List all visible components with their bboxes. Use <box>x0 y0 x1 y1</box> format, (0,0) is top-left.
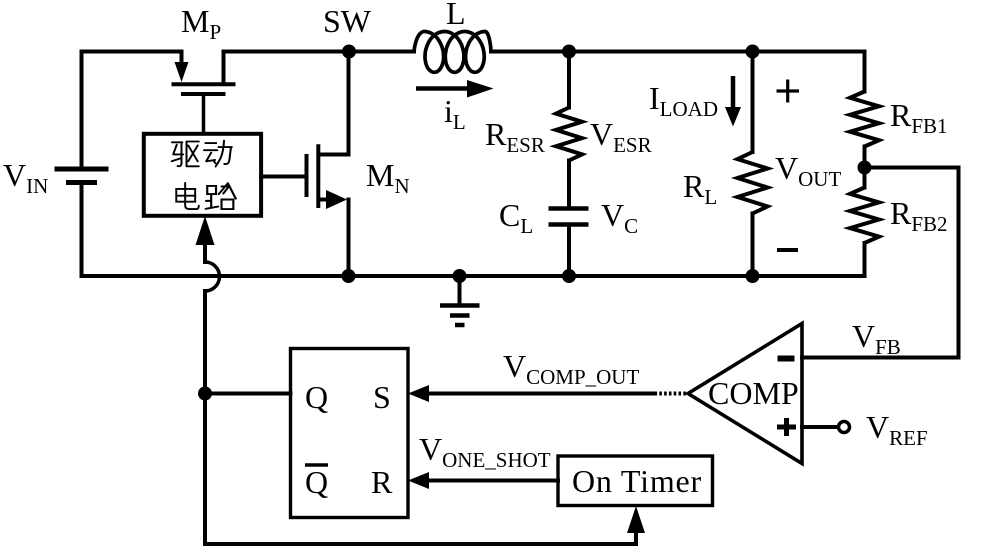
transistor MP (PMOS) <box>172 52 236 95</box>
node A feedback junction <box>198 387 212 401</box>
wire hop over bottom rail <box>205 262 220 291</box>
hanzi 驱 <box>172 141 199 166</box>
wire RESR to CL <box>567 161 571 207</box>
SR latch box <box>291 349 409 518</box>
node VFB <box>858 161 872 175</box>
wire MP gate to driver box <box>202 95 206 134</box>
minus sign VOUT <box>777 248 798 252</box>
svg-text:COMP: COMP <box>708 375 799 411</box>
svg-text:L: L <box>446 0 466 31</box>
wire COMP plus input to VREF terminal <box>802 425 838 429</box>
inductor L <box>414 32 491 73</box>
overbar of Qbar <box>305 463 328 467</box>
transistor MN (NMOS) <box>307 144 349 208</box>
wire COMP output dotted segment <box>655 392 687 396</box>
comparator COMP <box>688 324 802 464</box>
wire hop to driver arrow <box>203 243 207 262</box>
wire driver box to MN gate <box>261 175 306 179</box>
wire On Timer R output to latch R input <box>424 479 558 483</box>
plus sign COMP input <box>777 418 796 436</box>
svg-text:S: S <box>373 379 391 415</box>
wire top rail inductor to RFB1 <box>491 52 865 92</box>
svg-text:Q: Q <box>305 464 328 500</box>
node RL top <box>746 45 760 59</box>
resistor RESR <box>556 108 582 161</box>
wire COMP output solid segment <box>424 392 655 396</box>
wire node A down and along bottom to On Timer <box>205 394 636 545</box>
arrow into driver box bottom <box>196 216 215 245</box>
On Timer box <box>558 456 713 506</box>
plus sign VOUT <box>777 80 800 103</box>
resistor RFB1 <box>850 92 879 147</box>
node SW <box>342 45 356 59</box>
wire top-left rail <box>82 52 182 167</box>
capacitor CL <box>549 209 589 225</box>
wire RFB1 to RFB2 through VFB node <box>863 147 867 188</box>
wire CL bottom lead <box>567 227 571 277</box>
svg-text:R: R <box>371 464 393 500</box>
arrowhead into On Timer bottom <box>627 506 645 533</box>
hanzi 动 <box>204 141 232 167</box>
ground <box>440 276 480 325</box>
wire battery bottom lead <box>80 185 84 277</box>
svg-text:SW: SW <box>323 3 372 39</box>
arrowhead into R input <box>408 472 429 489</box>
arrow iL <box>416 80 494 98</box>
minus sign COMP input <box>778 356 795 362</box>
resistor RFB2 <box>850 188 879 244</box>
wire RESR top lead <box>567 52 571 108</box>
wire RL top lead <box>751 52 755 153</box>
hanzi 路 <box>206 183 236 209</box>
terminal VREF circle <box>839 422 850 433</box>
wire RL bottom lead <box>751 214 755 277</box>
arrowhead into S input <box>408 385 429 402</box>
wire bottom rail <box>82 243 865 276</box>
hanzi 电 <box>176 183 199 209</box>
wire MN source vertical <box>347 200 351 277</box>
node MN source at rail <box>342 269 356 283</box>
node ground at rail <box>453 269 467 283</box>
svg-text:On Timer: On Timer <box>572 463 702 499</box>
svg-text:Q: Q <box>305 379 328 415</box>
battery VIN <box>55 169 109 183</box>
node RL bottom <box>746 269 760 283</box>
wire node A up to hop <box>203 291 207 394</box>
node L-RESR junction <box>562 45 576 59</box>
wire latch Q output to node A <box>205 392 291 396</box>
resistor RL <box>738 152 768 214</box>
arrow ILOAD <box>725 76 741 127</box>
node CL at rail <box>562 269 576 283</box>
wire MN drain vertical <box>347 52 351 155</box>
driver box 驱动电路 <box>144 134 261 216</box>
wire top rail MP drain to inductor <box>224 50 415 54</box>
wire VFB node to COMP minus input <box>802 168 959 358</box>
